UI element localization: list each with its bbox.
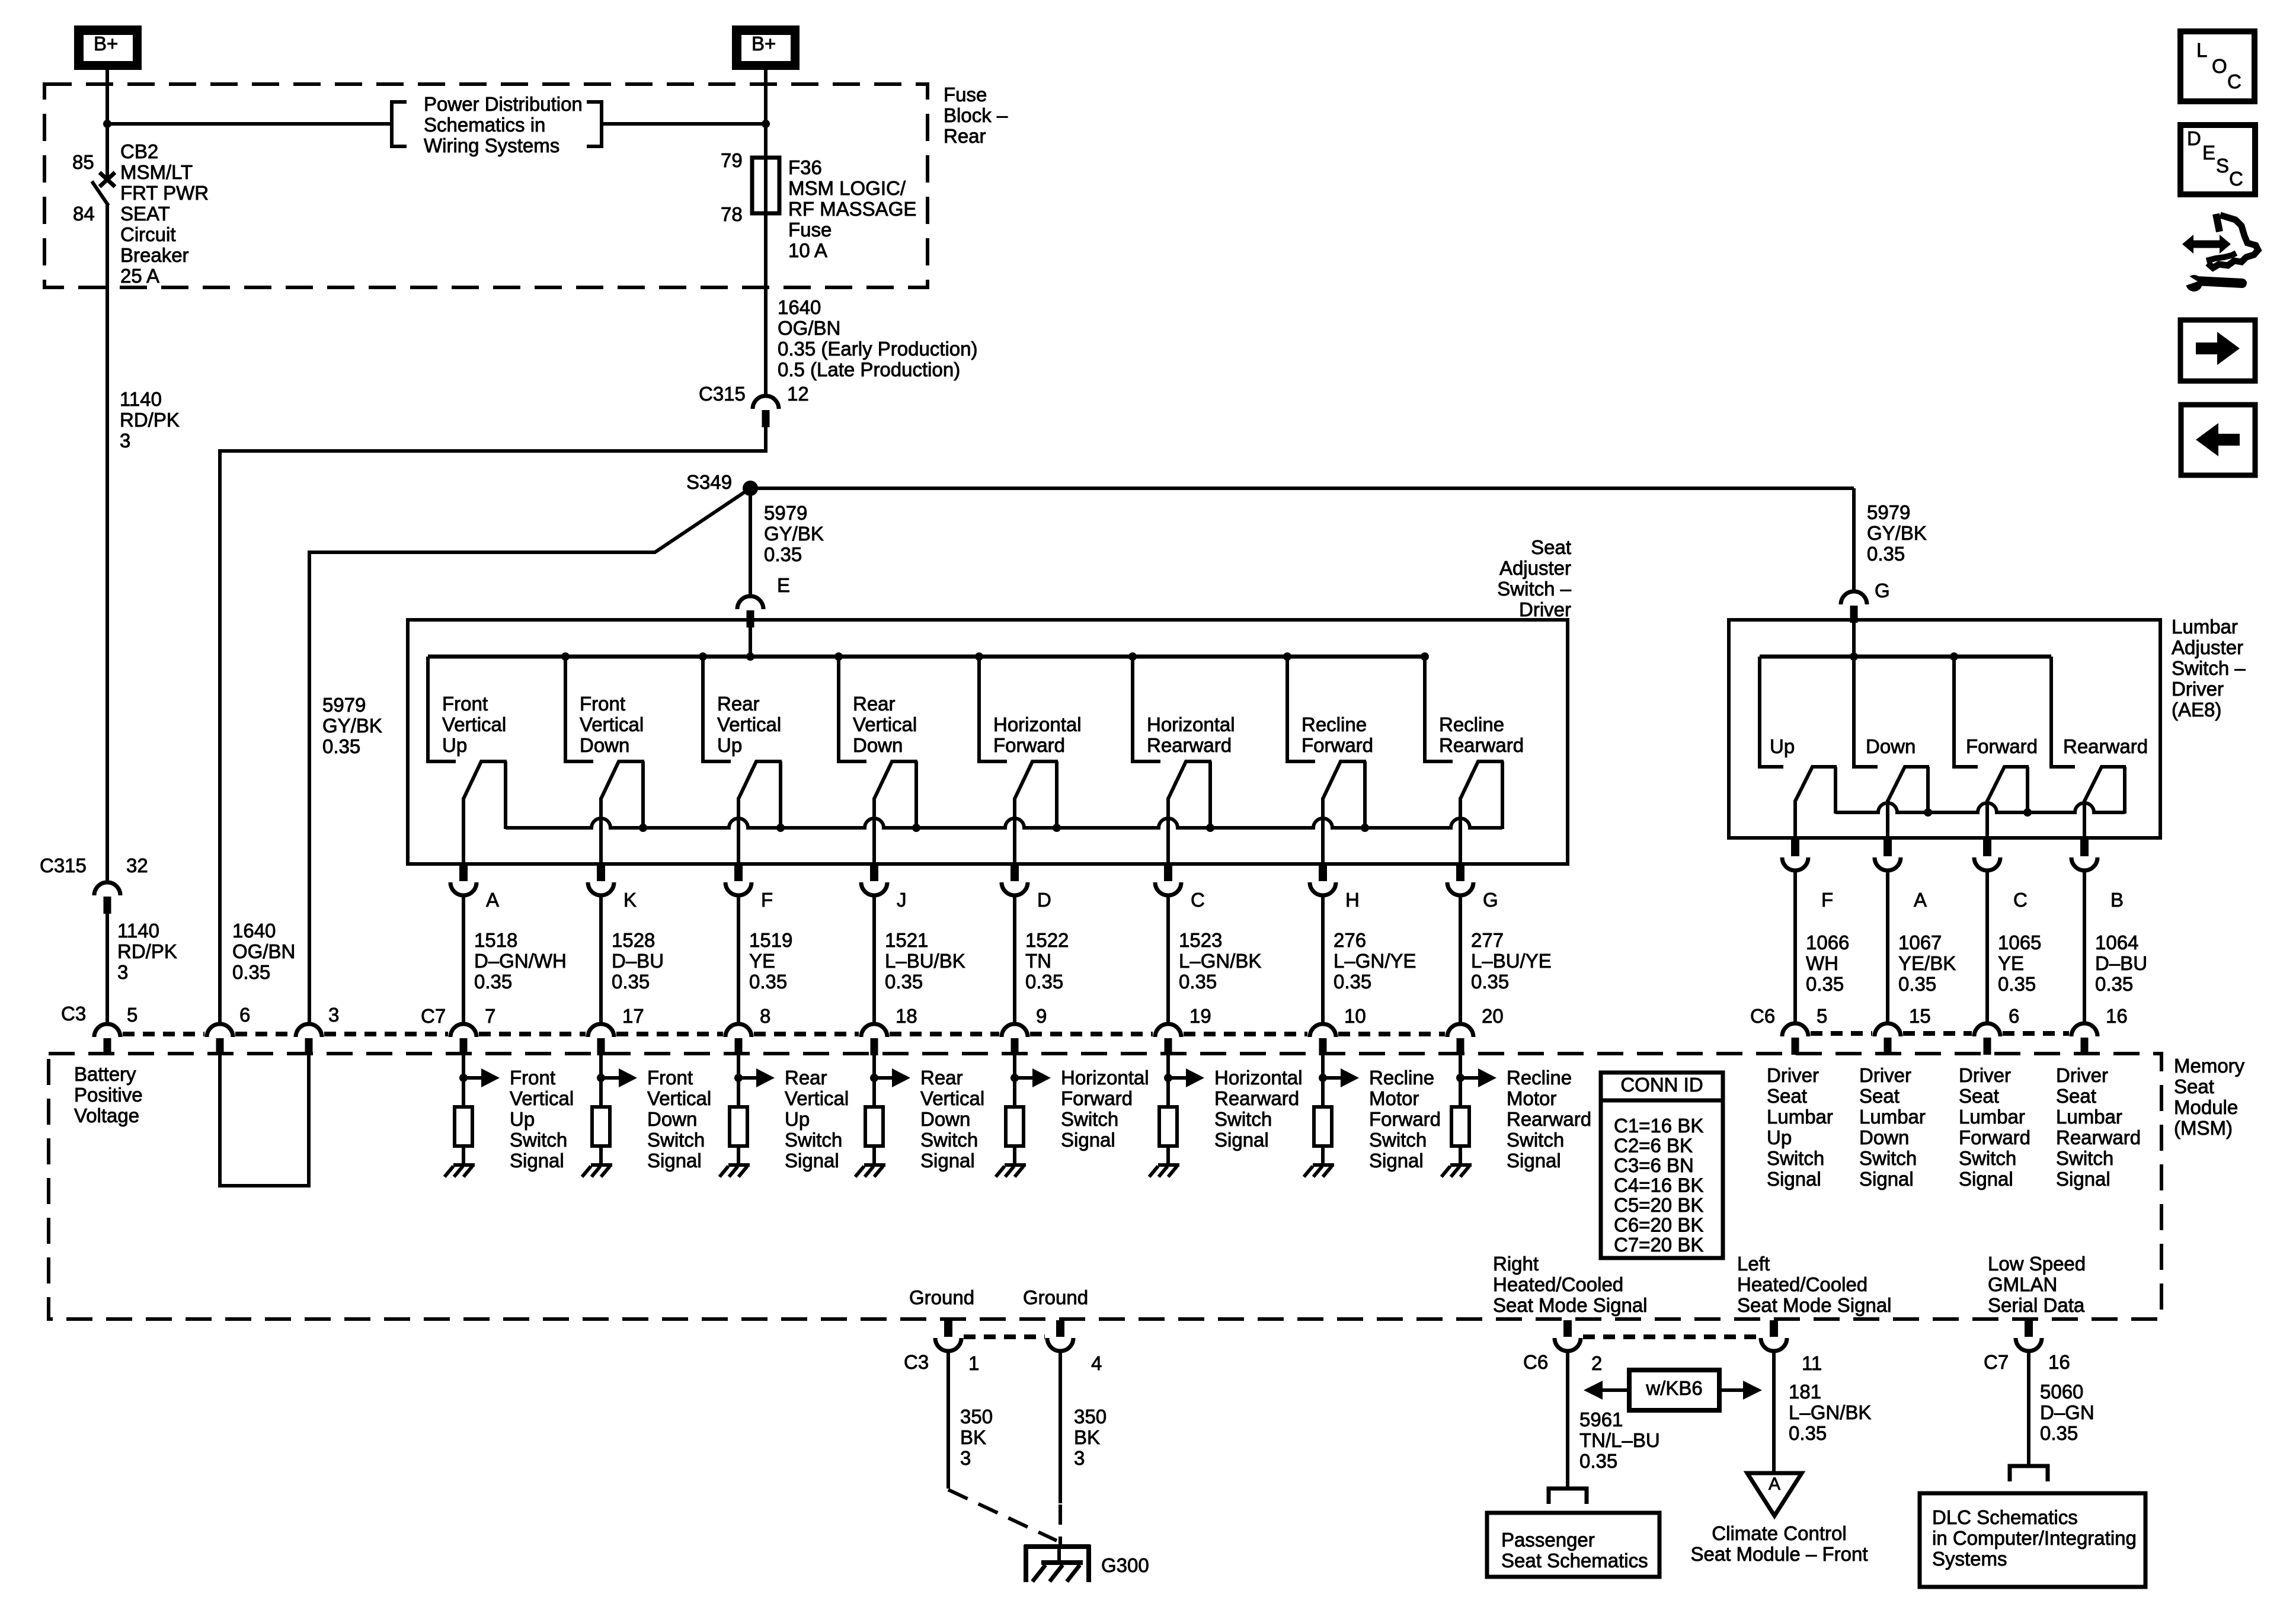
svg-text:C3: C3 [61,1003,86,1025]
wire circuit 5961 from C6-2 [1566,1350,1569,1489]
ground internal 7 [1313,1163,1334,1167]
wire resistor to ground 4 [872,1146,876,1166]
svg-text:Up: Up [785,1108,810,1130]
seat switch cell bracket 4 [839,657,866,761]
connector seat switch pin C [1164,865,1172,881]
svg-text:Switch: Switch [920,1129,978,1151]
svg-text:A: A [1914,889,1927,911]
lumbar switch blade Up [1795,767,1837,814]
ground internal 5 [1005,1163,1026,1167]
svg-text:S349: S349 [686,471,732,493]
svg-text:C315: C315 [40,854,87,876]
svg-text:F: F [1821,889,1833,911]
node output bus junction [1053,824,1061,832]
svg-text:276: 276 [1334,929,1366,951]
svg-text:0.35: 0.35 [885,971,923,993]
svg-text:A: A [1769,1474,1780,1494]
connector row dotted line C6 [1811,1031,1872,1036]
dotted line C6 bottom [1583,1334,1758,1339]
svg-text:Forward: Forward [993,734,1065,756]
node output bus junction [1206,824,1214,832]
node bus junction connector E [746,652,754,661]
svg-text:78: 78 [721,203,743,225]
svg-text:C: C [2229,168,2243,190]
connector lumbar switch pin B [2080,840,2089,856]
svg-text:Seat: Seat [1531,536,1571,558]
svg-text:Down: Down [1859,1126,1909,1148]
svg-text:G: G [1483,889,1498,911]
connector C7 pin 20 [1447,1024,1473,1037]
connector C3 pin 3 [296,1024,322,1037]
wire circuit 5060 from C7-16 [2027,1350,2030,1466]
svg-text:C4=16 BK: C4=16 BK [1614,1174,1703,1196]
svg-text:C3: C3 [904,1351,929,1373]
svg-text:Up: Up [717,734,742,756]
svg-text:L–BU/BK: L–BU/BK [885,950,965,972]
svg-text:Switch: Switch [1959,1147,2016,1169]
svg-text:Signal: Signal [1369,1150,1424,1172]
svg-text:Horizontal: Horizontal [1214,1067,1303,1089]
svg-text:0.35: 0.35 [2040,1422,2078,1444]
switch blade Horizontal Rearward [1168,761,1211,829]
wire circuit 1519 to MSM [737,896,740,1024]
node lumbar bus junction [1950,652,1958,661]
svg-text:15: 15 [1909,1005,1931,1027]
reference bracket left [392,102,407,146]
svg-text:1064: 1064 [2095,932,2138,953]
wire resistor to ground 3 [737,1146,740,1166]
svg-text:TN/L–BU: TN/L–BU [1579,1429,1660,1451]
wire circuit 1523 to MSM [1166,896,1170,1024]
wire circuit 1522 to MSM [1013,896,1016,1024]
passenger seat schematics box [1487,1513,1659,1577]
resistor R4 [865,1107,883,1146]
connector C3 pin 6 [207,1024,233,1037]
svg-text:Positive: Positive [74,1084,143,1106]
connector E seat adjuster switch [737,596,763,609]
node output bus junction [1361,824,1369,832]
svg-text:5060: 5060 [2040,1381,2083,1403]
svg-text:Signal: Signal [1859,1168,1914,1190]
svg-text:C5=20 BK: C5=20 BK [1614,1194,1703,1216]
svg-text:18: 18 [896,1005,917,1027]
svg-text:Vertical: Vertical [580,713,644,735]
svg-text:C3=6 BN: C3=6 BN [1614,1154,1694,1176]
svg-text:Rear: Rear [944,125,986,147]
wire to pulldown resistor 3 [737,1055,740,1108]
wire to pulldown resistor 6 [1166,1055,1170,1108]
svg-text:MSM LOGIC/: MSM LOGIC/ [788,177,906,199]
wire circuit 1518 to MSM [462,896,465,1024]
icon arrow right box [2180,320,2255,381]
svg-text:5: 5 [127,1004,137,1026]
wire from reference to B+2 feed [602,122,766,126]
connector seat switch pin D [1011,865,1019,881]
wire circuit 1065 to MSM [1985,871,1989,1023]
seat switch output bus with hops [506,818,1502,828]
svg-text:Rear: Rear [920,1067,963,1089]
svg-text:D–BU: D–BU [2095,952,2147,974]
ground internal 3 [728,1163,750,1167]
svg-text:3: 3 [960,1447,971,1469]
seat switch cell bracket 2 [565,657,593,761]
svg-text:0.35: 0.35 [1867,543,1905,565]
svg-text:Recline: Recline [1439,713,1504,735]
svg-text:Signal: Signal [1507,1150,1561,1172]
svg-text:5961: 5961 [1579,1409,1623,1430]
svg-text:YE/BK: YE/BK [1898,952,1956,974]
svg-text:Fuse: Fuse [788,219,832,241]
svg-text:Low Speed: Low Speed [1988,1253,2086,1275]
svg-text:O: O [2212,55,2227,77]
svg-text:25 A: 25 A [120,265,159,287]
svg-text:Driver: Driver [2056,1064,2108,1086]
switch blade Rear Vertical Up [738,761,782,829]
svg-text:Switch: Switch [1061,1108,1118,1130]
svg-text:Forward: Forward [1061,1087,1133,1109]
svg-text:Vertical: Vertical [920,1087,984,1109]
wire resistor to ground 1 [462,1146,465,1166]
svg-text:Signal: Signal [2056,1168,2110,1190]
svg-text:YE: YE [749,950,775,972]
svg-text:Schematics in: Schematics in [424,114,545,136]
svg-text:5979: 5979 [1867,501,1910,523]
svg-text:WH: WH [1806,952,1838,974]
svg-text:Switch: Switch [1507,1129,1564,1151]
svg-text:0.35: 0.35 [1998,973,2036,995]
svg-text:D–GN: D–GN [2040,1401,2094,1423]
switch blade Rear Vertical Down [874,761,917,829]
connector C315 pin 12 [753,396,779,409]
svg-text:Seat: Seat [1767,1085,1807,1107]
svg-text:Switch –: Switch – [2172,657,2246,679]
svg-text:Seat: Seat [1859,1085,1900,1107]
svg-text:FRT PWR: FRT PWR [120,182,209,204]
lumbar cell bracket Forward [1954,657,1978,767]
svg-text:Voltage: Voltage [74,1105,139,1126]
connector G lumbar adjuster switch [1841,591,1867,604]
svg-text:GMLAN: GMLAN [1988,1273,2057,1295]
icon LOC box [2180,31,2255,101]
svg-text:Vertical: Vertical [442,713,506,735]
svg-text:Driver: Driver [1959,1064,2011,1086]
svg-text:Driver: Driver [2172,678,2224,700]
wire lumbar pivot Up down [1793,800,1797,840]
svg-text:C6: C6 [1523,1351,1548,1373]
svg-text:C7: C7 [1984,1351,2009,1373]
svg-text:0.35: 0.35 [764,543,802,565]
svg-text:Driver: Driver [1859,1064,1911,1086]
wire switch pivot 4 down [872,798,876,865]
svg-text:GY/BK: GY/BK [322,715,382,737]
connector C7 pin 10 [1310,1024,1336,1037]
connector pin 11 [1770,1320,1778,1337]
resistor R6 [1159,1107,1177,1146]
node lumbar output bus junction [2023,808,2032,817]
svg-text:Down: Down [647,1108,697,1130]
svg-text:2: 2 [1591,1352,1602,1374]
svg-text:Recline: Recline [1507,1067,1572,1089]
wire through fuse F36 [764,159,768,395]
svg-text:5: 5 [1817,1005,1827,1027]
svg-text:Serial Data: Serial Data [1988,1294,2085,1316]
svg-text:Seat Mode Signal: Seat Mode Signal [1493,1294,1648,1316]
svg-text:32: 32 [126,854,148,876]
svg-text:Adjuster: Adjuster [1499,557,1571,579]
svg-text:Recline: Recline [1369,1067,1434,1089]
svg-text:0.35: 0.35 [1025,971,1063,993]
svg-text:3: 3 [117,961,128,983]
seat switch common bus [428,655,1425,659]
svg-text:Switch: Switch [1859,1147,1917,1169]
svg-text:DLC Schematics: DLC Schematics [1932,1506,2078,1528]
seat switch cell bracket 1 [428,657,456,761]
svg-text:D: D [1037,889,1051,911]
lumbar switch common bus [1760,655,2051,659]
svg-text:J: J [897,889,907,911]
connector seat switch pin J [870,865,878,881]
wire circuit 277 to MSM [1459,896,1462,1024]
dashed wire to G300 from C3-4 [1059,1505,1062,1549]
wire switch pivot 6 down [1166,798,1170,865]
svg-text:GY/BK: GY/BK [764,523,824,545]
wire CB2 to connector C315 pin 32 [105,204,109,882]
svg-text:Battery: Battery [74,1063,136,1085]
svg-text:Signal: Signal [1959,1168,2013,1190]
wire lumbar pivot Rearward down [2083,800,2086,840]
connector seat switch pin A [459,865,468,881]
svg-text:16: 16 [2106,1005,2128,1027]
resistor R5 [1006,1107,1024,1146]
svg-text:Switch: Switch [785,1129,842,1151]
connector C6 pin 5 [1782,1023,1808,1036]
svg-text:C2=6 BK: C2=6 BK [1614,1135,1693,1157]
svg-text:Switch: Switch [1369,1129,1427,1151]
svg-text:Switch –: Switch – [1497,578,1571,600]
svg-text:79: 79 [721,149,743,171]
node output bus junction [912,824,920,832]
connector lumbar switch pin A [1884,840,1892,856]
wire S349 to seat switch connector E [749,488,752,596]
svg-text:Switch: Switch [647,1129,705,1151]
svg-text:Switch: Switch [1767,1147,1824,1169]
svg-text:0.35: 0.35 [2095,973,2133,995]
arrow Recline Motor Forward signal [1319,1074,1327,1082]
svg-text:0.35: 0.35 [322,735,360,757]
svg-text:19: 19 [1189,1005,1211,1027]
wire circuit 1064 to MSM [2083,871,2086,1023]
svg-text:Front: Front [647,1067,693,1089]
svg-text:C: C [1191,889,1205,911]
svg-text:0.35: 0.35 [1471,971,1509,993]
wire to pulldown resistor 7 [1321,1055,1325,1108]
svg-text:1523: 1523 [1179,929,1222,951]
ground internal 2 [591,1163,612,1167]
svg-text:0.35: 0.35 [1334,971,1371,993]
node splice on B+1 feed [103,120,111,128]
node bus junction cell 4 [834,652,843,661]
seat switch cell bracket 8 [1425,657,1453,761]
svg-text:Vertical: Vertical [717,713,781,735]
svg-text:RD/PK: RD/PK [117,940,177,962]
svg-text:Adjuster: Adjuster [2172,636,2243,658]
svg-text:Right: Right [1493,1253,1539,1275]
svg-text:1140: 1140 [117,920,159,942]
svg-text:Heated/Cooled: Heated/Cooled [1737,1273,1868,1295]
seat switch cell bracket 7 [1287,657,1315,761]
wire S349 bus to lumbar switch [750,486,1854,490]
svg-text:Block –: Block – [944,104,1008,126]
arrow Rear Vertical Down signal [870,1074,878,1082]
svg-text:Seat Module – Front: Seat Module – Front [1691,1543,1868,1565]
svg-text:Front: Front [580,693,625,715]
wire B+2 to fuse F36 [764,70,768,159]
svg-text:Lumbar: Lumbar [1767,1106,1833,1128]
svg-text:S: S [2216,155,2229,177]
svg-text:Vertical: Vertical [510,1087,574,1109]
svg-text:Driver: Driver [1519,598,1571,620]
svg-text:Seat Schematics: Seat Schematics [1501,1550,1648,1571]
connector C6 pin 15 [1875,1023,1901,1036]
wire B+1 to circuit breaker CB2 [105,70,109,177]
connector C7 pin 16 bottom [2025,1320,2033,1337]
svg-text:181: 181 [1789,1381,1821,1403]
svg-text:Horizontal: Horizontal [1147,713,1235,735]
svg-text:1519: 1519 [749,929,792,951]
svg-text:Circuit: Circuit [120,223,176,245]
svg-text:RD/PK: RD/PK [120,409,180,431]
ground internal 1 [453,1163,475,1167]
wire S349 bus down to G [1852,488,1856,591]
svg-text:0.35 (Early Production): 0.35 (Early Production) [778,338,978,360]
svg-text:Lumbar: Lumbar [1859,1106,1926,1128]
node output bus junction [776,824,785,832]
CONN ID table box [1601,1073,1723,1258]
svg-text:Signal: Signal [1061,1129,1115,1151]
svg-text:6: 6 [239,1004,250,1026]
connector C6 pin 6 [1974,1023,2000,1036]
lumbar cell bracket Up [1760,657,1783,767]
svg-text:Lumbar: Lumbar [2172,616,2238,638]
svg-text:Wiring Systems: Wiring Systems [424,135,559,156]
connector lumbar switch pin F [1791,840,1799,856]
svg-text:C315: C315 [699,383,746,405]
ground G300 [1024,1545,1091,1582]
svg-text:Signal: Signal [647,1150,702,1172]
svg-text:F36: F36 [788,156,822,178]
svg-text:Vertical: Vertical [853,713,917,735]
svg-text:E: E [2202,142,2215,164]
off-page bracket DLC [2010,1466,2048,1481]
svg-text:L–GN/BK: L–GN/BK [1179,950,1261,972]
wire circuit 350 BK from C3-4 [1059,1350,1062,1503]
power feed B+ terminal 2 [732,25,800,70]
svg-text:0.5 (Late Production): 0.5 (Late Production) [778,359,960,380]
arrow Rear Vertical Up signal [734,1074,743,1082]
svg-text:w/KB6: w/KB6 [1645,1377,1702,1399]
svg-text:1640: 1640 [778,296,821,318]
svg-text:C: C [2013,889,2028,911]
wire resistor to ground 6 [1166,1146,1170,1166]
svg-text:YE: YE [1998,952,2024,974]
wire switch pivot 2 down [599,798,603,865]
svg-text:C: C [2227,71,2241,92]
svg-text:Ground: Ground [909,1286,974,1308]
svg-text:Vertical: Vertical [647,1087,711,1109]
wire circuit 350 BK from C3-1 [946,1350,950,1489]
svg-text:Seat: Seat [1959,1085,1999,1107]
svg-text:Up: Up [1767,1126,1792,1148]
svg-text:350: 350 [960,1406,993,1427]
svg-text:Power Distribution: Power Distribution [424,93,583,115]
dashed wire to G300 from C3-1 [948,1490,1057,1541]
wire S349 branch diagonal to C3 pin 3 [309,488,750,1024]
svg-text:Forward: Forward [1959,1126,2030,1148]
svg-text:Signal: Signal [510,1150,564,1172]
svg-text:Rear: Rear [785,1067,827,1089]
splice S349 [743,481,758,496]
svg-text:10 A: 10 A [788,239,827,261]
svg-text:6: 6 [2009,1005,2019,1027]
svg-text:Heated/Cooled: Heated/Cooled [1493,1273,1623,1295]
svg-text:G: G [1875,580,1890,601]
svg-text:TN: TN [1025,950,1051,972]
svg-text:Ground: Ground [1023,1286,1088,1308]
wire resistor to ground 2 [599,1146,603,1166]
switch blade Horizontal Forward [1015,761,1058,829]
connector C3 pin 1 [944,1320,952,1337]
svg-text:C6=20 BK: C6=20 BK [1614,1214,1703,1236]
svg-text:in Computer/Integrating: in Computer/Integrating [1932,1527,2137,1549]
svg-text:0.35: 0.35 [1789,1422,1827,1444]
svg-text:0.35: 0.35 [232,961,270,983]
connector seat switch pin G [1456,865,1464,881]
wire to power distribution reference [107,122,391,126]
connector lumbar switch pin C [1983,840,1991,856]
svg-text:Rearward: Rearward [1507,1108,1591,1130]
circuit breaker CB2 blade [92,181,108,206]
svg-text:Up: Up [1770,735,1795,757]
ground internal 6 [1158,1163,1179,1167]
svg-text:OG/BN: OG/BN [778,317,840,339]
svg-text:Module: Module [2174,1096,2238,1118]
resistor R1 [455,1107,472,1146]
connector row dotted line C3/C7 [123,1032,204,1036]
seat adjuster switch - driver box [408,620,1568,864]
svg-text:Down: Down [580,734,629,756]
svg-text:Signal: Signal [1767,1168,1821,1190]
seat switch cell bracket 3 [703,657,731,761]
wire to pulldown resistor 8 [1459,1055,1462,1108]
svg-text:G300: G300 [1101,1554,1149,1576]
svg-text:Memory: Memory [2174,1055,2245,1077]
svg-text:9: 9 [1036,1005,1047,1027]
svg-text:RF MASSAGE: RF MASSAGE [788,198,916,220]
svg-text:B: B [2110,889,2124,911]
wire resistor to ground 8 [1459,1146,1462,1166]
lumbar adjuster switch - driver box [1729,620,2160,838]
svg-text:Motor: Motor [1507,1087,1556,1109]
svg-text:Left: Left [1737,1253,1770,1275]
connector C7 pin 19 [1155,1024,1181,1037]
svg-text:L–GN/BK: L–GN/BK [1789,1401,1871,1423]
svg-text:8: 8 [760,1005,770,1027]
node bus junction cell 8 [1421,652,1429,661]
svg-text:Signal: Signal [785,1150,839,1172]
svg-text:GY/BK: GY/BK [1867,522,1927,544]
svg-text:Front: Front [510,1067,555,1089]
switch blade Recline Forward [1323,761,1366,829]
